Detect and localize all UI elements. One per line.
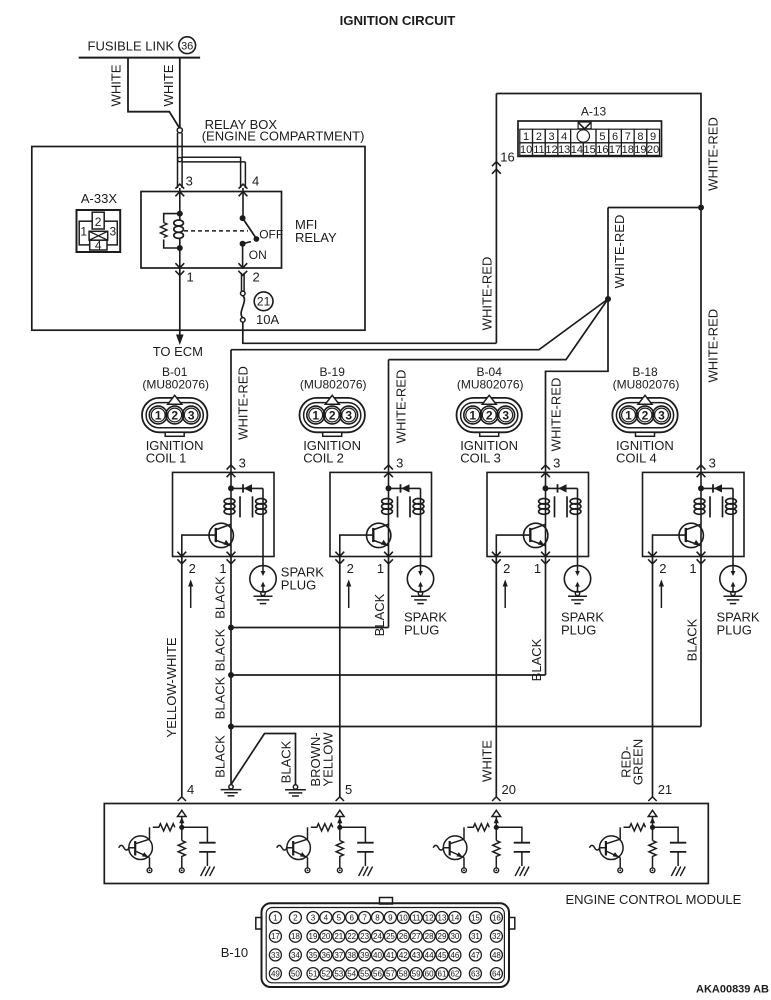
svg-text:1: 1 bbox=[80, 225, 87, 239]
svg-text:20: 20 bbox=[647, 144, 659, 156]
svg-text:BLACK: BLACK bbox=[685, 618, 700, 661]
wire coil 4 pin 1 down bbox=[700, 557, 702, 727]
svg-text:BLACK: BLACK bbox=[279, 740, 294, 783]
ON contact stub bbox=[243, 242, 251, 244]
resistor horizontal bbox=[153, 824, 175, 831]
wire to transistor collector bbox=[149, 827, 151, 839]
ground G1 bbox=[221, 785, 242, 796]
coil 3 pin 2 terminal bbox=[492, 552, 501, 564]
hatched ground bbox=[671, 867, 685, 877]
power transistor coil 1 bbox=[209, 523, 233, 547]
wire relay pin1 to ECM bbox=[179, 268, 181, 336]
svg-text:20: 20 bbox=[502, 782, 516, 797]
junction bus 2 bbox=[228, 672, 234, 678]
svg-text:WHITE: WHITE bbox=[480, 740, 495, 782]
wire triangle to node bbox=[495, 817, 497, 828]
double-line cable left bbox=[177, 133, 179, 188]
svg-text:16: 16 bbox=[492, 913, 501, 922]
wire BLACK coil1 pin1 down bbox=[230, 557, 232, 785]
svg-text:17: 17 bbox=[609, 144, 621, 156]
spark plug 4 bbox=[720, 566, 746, 604]
arrowhead up bbox=[650, 817, 655, 823]
svg-text:4: 4 bbox=[561, 131, 567, 143]
secondary winding coil 4 bbox=[726, 499, 737, 515]
svg-text:59: 59 bbox=[412, 970, 421, 979]
svg-text:(MU802076): (MU802076) bbox=[457, 378, 524, 392]
coil 4 pin 1 terminal bbox=[697, 552, 706, 564]
svg-text:30: 30 bbox=[450, 932, 459, 941]
ECM transistor 3 bbox=[433, 836, 467, 860]
double-line cable right bbox=[181, 133, 183, 188]
svg-text:WHITE: WHITE bbox=[161, 64, 176, 106]
wire bbox=[179, 238, 181, 248]
ECM pin 4 terminal fork bbox=[178, 797, 186, 801]
input triangle bbox=[648, 810, 657, 816]
svg-text:38: 38 bbox=[347, 951, 356, 960]
wire pin3 to relay coil bbox=[179, 188, 181, 214]
capacitor plate 2 bbox=[514, 851, 530, 853]
wire node to diode/secondary bbox=[231, 487, 263, 489]
ignition coil 1 internal box bbox=[173, 472, 275, 556]
input triangle bbox=[178, 810, 187, 816]
svg-text:36: 36 bbox=[321, 951, 330, 960]
svg-text:44: 44 bbox=[425, 951, 434, 960]
svg-text:2: 2 bbox=[659, 561, 666, 576]
ECM node bbox=[494, 825, 499, 830]
ECM transistor 2 bbox=[277, 836, 311, 860]
wire base to pin 2 bbox=[496, 535, 530, 556]
svg-text:3: 3 bbox=[553, 456, 560, 471]
svg-text:57: 57 bbox=[386, 970, 395, 979]
svg-text:9: 9 bbox=[388, 913, 393, 922]
svg-text:BLACK: BLACK bbox=[372, 593, 387, 636]
svg-text:GREEN: GREEN bbox=[631, 739, 646, 785]
hatched ground bbox=[201, 867, 215, 877]
svg-text:37: 37 bbox=[334, 951, 343, 960]
resistor horizontal bbox=[624, 824, 646, 831]
wire primary to transistor/pin1 bbox=[388, 518, 390, 557]
transformer core coil 4 bbox=[709, 496, 711, 517]
connector B-04 symbol bbox=[457, 395, 522, 436]
capacitor plate 1 bbox=[670, 842, 686, 844]
wire to relay resistor bbox=[164, 214, 180, 223]
wire primary winding bbox=[700, 488, 702, 518]
svg-text:1: 1 bbox=[155, 409, 162, 423]
coil 1 pin 2 terminal bbox=[177, 552, 186, 564]
svg-text:31: 31 bbox=[471, 932, 480, 941]
resistor horizontal bbox=[467, 824, 489, 831]
wire to capacitor bbox=[653, 827, 679, 842]
svg-text:6: 6 bbox=[612, 131, 618, 143]
wire coil 2 pin2 to ECM bbox=[339, 557, 341, 797]
svg-text:26: 26 bbox=[399, 932, 408, 941]
connector B-10 symbol bbox=[256, 898, 515, 988]
fuse top terminal bbox=[241, 291, 246, 296]
svg-text:56: 56 bbox=[373, 970, 382, 979]
wire node to diode/secondary bbox=[701, 487, 733, 489]
primary winding coil 2 bbox=[382, 499, 393, 515]
svg-text:34: 34 bbox=[291, 951, 300, 960]
connector B-01 symbol bbox=[142, 395, 207, 436]
svg-text:COIL 4: COIL 4 bbox=[616, 451, 657, 466]
svg-text:51: 51 bbox=[309, 970, 318, 979]
svg-text:WHITE-RED: WHITE-RED bbox=[394, 370, 409, 444]
connector B-18 symbol bbox=[612, 395, 677, 436]
svg-text:3: 3 bbox=[110, 225, 117, 239]
wire bus to coil 4 pin 1 bbox=[231, 726, 701, 728]
svg-text:WHITE-RED: WHITE-RED bbox=[236, 366, 251, 440]
svg-text:11: 11 bbox=[412, 913, 421, 922]
wire node to diode/secondary bbox=[546, 487, 578, 489]
svg-text:5: 5 bbox=[599, 131, 605, 143]
coil 3 pin 3 terminal bbox=[541, 465, 550, 477]
wire to capacitor bbox=[496, 827, 522, 842]
wire primary to transistor/pin1 bbox=[700, 518, 702, 557]
wire primary to transistor/pin1 bbox=[230, 518, 232, 557]
wire secondary top bbox=[577, 488, 579, 518]
svg-text:2: 2 bbox=[536, 131, 542, 143]
relay actuation dashed link bbox=[184, 230, 248, 232]
svg-text:BLACK: BLACK bbox=[213, 676, 228, 719]
svg-text:PLUG: PLUG bbox=[561, 623, 596, 638]
svg-text:2: 2 bbox=[642, 409, 649, 423]
capacitor plate 2 bbox=[199, 851, 215, 853]
wire triangle to node bbox=[652, 817, 654, 828]
arrowhead up bbox=[337, 817, 342, 823]
secondary winding coil 1 bbox=[256, 499, 267, 515]
wire triangle to node bbox=[339, 817, 341, 828]
svg-text:35: 35 bbox=[309, 951, 318, 960]
MFI relay outline bbox=[141, 192, 282, 269]
connector A-33X symbol bbox=[77, 210, 121, 252]
svg-text:15: 15 bbox=[583, 144, 595, 156]
capacitor plate 2 bbox=[670, 851, 686, 853]
svg-text:2: 2 bbox=[189, 561, 196, 576]
coil 1 pin 1 terminal bbox=[227, 552, 236, 564]
relay switch blade end bbox=[254, 236, 260, 242]
power distribution node bbox=[605, 296, 611, 302]
wire secondary to spark plug bbox=[577, 518, 579, 566]
wire base to pin 2 bbox=[182, 535, 216, 556]
spark plug 1 bbox=[250, 566, 276, 604]
svg-text:2: 2 bbox=[503, 561, 510, 576]
svg-text:WHITE-RED: WHITE-RED bbox=[706, 117, 721, 191]
wire node to right power wire bbox=[608, 207, 701, 209]
wire node to ignition coil 1 bbox=[231, 299, 608, 350]
wire primary winding bbox=[388, 488, 390, 518]
svg-text:COIL 1: COIL 1 bbox=[146, 451, 187, 466]
svg-text:2: 2 bbox=[486, 409, 493, 423]
signal direction arrow bbox=[348, 581, 350, 608]
coil 1 internal node bbox=[228, 485, 234, 491]
diode cathode bar coil 1 bbox=[242, 484, 244, 492]
coil 4 internal node bbox=[698, 485, 704, 491]
svg-text:1: 1 bbox=[312, 409, 319, 423]
wire secondary to spark plug bbox=[732, 518, 734, 566]
svg-text:21: 21 bbox=[658, 782, 672, 797]
svg-text:29: 29 bbox=[438, 932, 447, 941]
ECM transistor 4 bbox=[589, 836, 623, 860]
relay switch blade bbox=[243, 218, 257, 238]
ECM node bbox=[337, 825, 342, 830]
svg-text:19: 19 bbox=[634, 144, 646, 156]
resistor vertical bbox=[336, 827, 343, 868]
svg-text:39: 39 bbox=[360, 951, 369, 960]
svg-text:10: 10 bbox=[399, 913, 408, 922]
svg-text:15: 15 bbox=[471, 913, 480, 922]
secondary winding coil 2 bbox=[413, 499, 424, 515]
resistor vertical bbox=[493, 827, 500, 868]
wire up to A-13 pin 16 bbox=[495, 94, 497, 344]
wire bbox=[179, 214, 181, 220]
emitter wire bbox=[149, 858, 151, 869]
svg-text:1: 1 bbox=[469, 409, 476, 423]
junction bus 3 bbox=[228, 724, 234, 730]
svg-text:PLUG: PLUG bbox=[717, 623, 752, 638]
relay box outline bbox=[32, 147, 365, 331]
capacitor to ground bbox=[206, 852, 208, 866]
connector A-13 pin 16 inline terminal bbox=[492, 162, 501, 174]
svg-text:33: 33 bbox=[271, 951, 280, 960]
svg-text:52: 52 bbox=[321, 970, 330, 979]
emitter wire bbox=[619, 858, 621, 869]
wire secondary to spark plug bbox=[262, 518, 264, 566]
svg-text:36: 36 bbox=[181, 40, 193, 52]
svg-text:21: 21 bbox=[334, 932, 343, 941]
transformer core coil 2 bbox=[397, 496, 399, 517]
wire coil 2 pin 1 down bbox=[388, 557, 390, 628]
wire pin3 into box bbox=[230, 467, 232, 489]
diode coil 1 bbox=[244, 484, 252, 492]
svg-text:13: 13 bbox=[438, 913, 447, 922]
svg-text:10A: 10A bbox=[256, 312, 279, 327]
svg-text:3: 3 bbox=[188, 409, 195, 423]
svg-text:5: 5 bbox=[337, 913, 342, 922]
wire node to diode/secondary bbox=[389, 487, 421, 489]
resistor horizontal bbox=[311, 824, 333, 831]
signal direction arrow bbox=[504, 581, 506, 608]
svg-text:48: 48 bbox=[492, 951, 501, 960]
power transistor coil 3 bbox=[524, 523, 548, 547]
svg-text:WHITE-RED: WHITE-RED bbox=[706, 309, 721, 383]
ignition coil 2 internal box bbox=[330, 472, 432, 556]
primary winding coil 4 bbox=[694, 499, 705, 515]
svg-text:3: 3 bbox=[502, 409, 509, 423]
wire bus to coil 2 pin 1 bbox=[231, 627, 389, 629]
relay pin 4 connector bbox=[239, 184, 248, 196]
wire coil 3 pin 1 down bbox=[545, 557, 547, 676]
svg-text:BLACK: BLACK bbox=[213, 735, 228, 778]
wire pin4 to switch bbox=[242, 188, 244, 218]
coil 2 pin 3 terminal bbox=[384, 465, 393, 477]
svg-text:54: 54 bbox=[347, 970, 356, 979]
relay switch common contact bbox=[240, 215, 246, 221]
input triangle bbox=[492, 810, 501, 816]
wire pin3 into box bbox=[545, 467, 547, 489]
fusible link bus bar bbox=[79, 57, 200, 59]
coil 1 pin 3 terminal bbox=[227, 465, 236, 477]
diode coil 2 bbox=[401, 484, 409, 492]
signal direction arrow bbox=[660, 581, 662, 608]
diode cathode bar coil 2 bbox=[400, 484, 402, 492]
wire node to ignition coil 2 bbox=[389, 299, 609, 360]
svg-text:5: 5 bbox=[345, 782, 352, 797]
svg-text:10: 10 bbox=[520, 144, 532, 156]
wire primary winding bbox=[230, 488, 232, 518]
connector B-19 symbol bbox=[300, 395, 365, 436]
svg-text:3: 3 bbox=[239, 456, 246, 471]
wire triangle to node bbox=[181, 817, 183, 828]
svg-text:60: 60 bbox=[425, 970, 434, 979]
wire to capacitor bbox=[182, 827, 208, 842]
svg-text:2: 2 bbox=[347, 561, 354, 576]
junction bus 1 bbox=[228, 625, 234, 631]
capacitor plate 2 bbox=[357, 851, 373, 853]
svg-text:PLUG: PLUG bbox=[404, 623, 439, 638]
relay switch ON contact bbox=[240, 241, 246, 247]
wire to capacitor bbox=[340, 827, 366, 842]
capacitor plate 1 bbox=[514, 842, 530, 844]
svg-text:13: 13 bbox=[558, 144, 570, 156]
svg-text:16: 16 bbox=[596, 144, 608, 156]
ECM pin 20 terminal fork bbox=[492, 797, 500, 801]
svg-text:4: 4 bbox=[252, 174, 259, 189]
secondary winding coil 3 bbox=[570, 499, 581, 515]
relay coil bottom node bbox=[177, 245, 183, 251]
svg-text:TO ECM: TO ECM bbox=[153, 344, 203, 359]
svg-text:FUSIBLE LINK: FUSIBLE LINK bbox=[88, 39, 175, 54]
svg-text:7: 7 bbox=[625, 131, 631, 143]
ECM pin 5 terminal fork bbox=[336, 797, 344, 801]
resistor vertical bbox=[178, 827, 185, 868]
svg-text:RELAY: RELAY bbox=[295, 230, 337, 245]
svg-text:8: 8 bbox=[375, 913, 380, 922]
svg-text:1: 1 bbox=[625, 409, 632, 423]
svg-text:PLUG: PLUG bbox=[281, 578, 316, 593]
svg-text:4: 4 bbox=[187, 782, 194, 797]
wire secondary top bbox=[420, 488, 422, 518]
svg-text:2: 2 bbox=[95, 215, 102, 229]
svg-text:9: 9 bbox=[650, 131, 656, 143]
diode coil 3 bbox=[558, 484, 566, 492]
wire from relay resistor bbox=[164, 240, 180, 249]
svg-text:4: 4 bbox=[95, 239, 102, 253]
transformer core coil 3 bbox=[554, 496, 556, 517]
svg-text:18: 18 bbox=[291, 932, 300, 941]
svg-text:COIL 3: COIL 3 bbox=[460, 451, 501, 466]
svg-text:ENGINE CONTROL MODULE: ENGINE CONTROL MODULE bbox=[566, 892, 742, 907]
svg-text:1: 1 bbox=[534, 561, 541, 576]
wire primary to transistor/pin1 bbox=[545, 518, 547, 557]
wire to ground G2 bbox=[231, 734, 296, 785]
svg-text:12: 12 bbox=[545, 144, 557, 156]
svg-text:1: 1 bbox=[187, 270, 194, 285]
wire WHITE right from fusible link bbox=[179, 58, 181, 128]
fuse element 10A bbox=[241, 296, 244, 318]
wire junction bullet bbox=[177, 128, 182, 133]
svg-text:A-33X: A-33X bbox=[81, 191, 117, 206]
wire coil 4 pin2 to ECM bbox=[652, 557, 654, 797]
wire secondary to spark plug bbox=[420, 518, 422, 566]
wire to transistor collector bbox=[307, 827, 309, 839]
svg-text:11: 11 bbox=[533, 144, 544, 156]
A-13 pin grid bbox=[520, 129, 660, 156]
ground G2 bbox=[285, 785, 306, 796]
svg-text:(MU802076): (MU802076) bbox=[142, 378, 209, 392]
svg-text:3: 3 bbox=[548, 131, 554, 143]
svg-text:BLACK: BLACK bbox=[213, 576, 228, 619]
coil 3 internal node bbox=[543, 485, 549, 491]
svg-text:3: 3 bbox=[709, 456, 716, 471]
svg-text:21: 21 bbox=[257, 295, 271, 309]
diode coil 4 bbox=[714, 484, 722, 492]
capacitor plate 1 bbox=[199, 842, 215, 844]
svg-text:22: 22 bbox=[347, 932, 356, 941]
emitter wire bbox=[307, 858, 309, 869]
svg-text:32: 32 bbox=[492, 932, 501, 941]
capacitor plate 1 bbox=[357, 842, 373, 844]
ECM node bbox=[179, 825, 184, 830]
capacitor to ground bbox=[521, 852, 523, 866]
relay pin 3 connector bbox=[175, 184, 184, 196]
svg-text:2: 2 bbox=[171, 409, 178, 423]
svg-text:2: 2 bbox=[253, 270, 260, 285]
spark plug 2 bbox=[407, 566, 433, 604]
signal direction arrow bbox=[190, 581, 192, 608]
wire base to pin 2 bbox=[653, 535, 686, 556]
capacitor to ground bbox=[364, 852, 366, 866]
svg-text:55: 55 bbox=[360, 970, 369, 979]
svg-text:61: 61 bbox=[438, 970, 447, 979]
wire pin3 into box bbox=[388, 467, 390, 489]
svg-text:YELLOW-WHITE: YELLOW-WHITE bbox=[164, 637, 179, 737]
svg-text:28: 28 bbox=[425, 932, 434, 941]
power transistor coil 2 bbox=[367, 523, 391, 547]
relay coil top node bbox=[177, 211, 183, 217]
cable branch bullet bbox=[178, 157, 182, 161]
emitter wire bbox=[463, 858, 465, 869]
ECM transistor 1 bbox=[119, 836, 153, 860]
svg-text:23: 23 bbox=[360, 932, 369, 941]
arrow to ECM bbox=[176, 335, 184, 346]
svg-text:ON: ON bbox=[249, 248, 267, 262]
svg-text:BLACK: BLACK bbox=[529, 638, 544, 681]
ECM node bbox=[650, 825, 655, 830]
svg-text:49: 49 bbox=[271, 970, 280, 979]
svg-text:3: 3 bbox=[396, 456, 403, 471]
svg-text:1: 1 bbox=[689, 561, 696, 576]
svg-text:WHITE-RED: WHITE-RED bbox=[549, 378, 564, 452]
svg-text:(MU802076): (MU802076) bbox=[613, 378, 680, 392]
svg-text:27: 27 bbox=[412, 932, 421, 941]
arrowhead up bbox=[494, 817, 499, 823]
wire WHITE-RED loop around A-13 to coil 4 bbox=[496, 94, 701, 467]
coil 4 pin 3 terminal bbox=[697, 465, 706, 477]
svg-text:WHITE-RED: WHITE-RED bbox=[479, 257, 494, 331]
coil 2 pin 2 terminal bbox=[335, 552, 344, 564]
svg-text:14: 14 bbox=[450, 913, 459, 922]
svg-text:(ENGINE COMPARTMENT): (ENGINE COMPARTMENT) bbox=[202, 128, 365, 143]
A-13 index notch symbol bbox=[578, 122, 591, 129]
coil 2 pin 1 terminal bbox=[384, 552, 393, 564]
coil 2 internal node bbox=[386, 485, 392, 491]
wire pin3 into box bbox=[700, 467, 702, 489]
spark plug 3 bbox=[564, 566, 590, 604]
svg-text:COIL 2: COIL 2 bbox=[303, 451, 344, 466]
diode cathode bar coil 3 bbox=[557, 484, 559, 492]
arrowhead up bbox=[179, 817, 184, 823]
relay pin 2 connector bbox=[238, 263, 247, 275]
